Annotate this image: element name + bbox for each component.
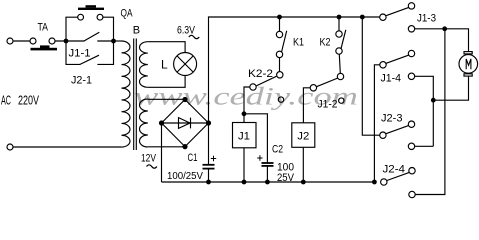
label C1 plus bbox=[211, 156, 216, 161]
contact J1-2 top circle bbox=[337, 73, 343, 79]
wire to transformer primary bbox=[114, 40, 122, 42]
svg-text:K2-2: K2-2 bbox=[248, 68, 273, 80]
contact J1-4 lower throw bbox=[408, 73, 414, 79]
contact J1-4 common bbox=[380, 62, 386, 68]
svg-text:220V: 220V bbox=[18, 93, 39, 108]
svg-text:TA: TA bbox=[38, 22, 49, 34]
contact J2-3 common bbox=[380, 132, 386, 138]
wire J1-4 throw to motor bottom node bbox=[415, 76, 434, 146]
node bridge left vertex bbox=[159, 120, 164, 125]
capacitor C1 stub bbox=[208, 123, 210, 165]
switch K2-2 blade bbox=[256, 76, 276, 86]
svg-text:100/25V: 100/25V bbox=[167, 171, 203, 182]
contact J2-1 branch wire bbox=[66, 41, 80, 64]
contact J1-1 blade bbox=[84, 32, 99, 41]
switch K2-2 floating contact bbox=[278, 97, 283, 102]
contact J2-1 blade bbox=[80, 55, 99, 64]
contact J2-4 common bbox=[381, 179, 387, 185]
svg-text:J2-1: J2-1 bbox=[71, 75, 92, 87]
capacitor C2 wire bbox=[244, 114, 267, 163]
contact J2-3 lower throw bbox=[408, 143, 414, 149]
capacitor C2 plates bbox=[262, 163, 274, 166]
wire bbox=[97, 41, 113, 64]
switch K2-2 right contact bbox=[277, 72, 283, 78]
node dot motor top bbox=[442, 26, 447, 31]
relay coil J2 bbox=[292, 123, 315, 148]
wire K2-2 to J1 node bbox=[244, 87, 250, 114]
bridge diode bbox=[162, 122, 209, 124]
contact J1-3 blade bbox=[386, 8, 408, 16]
push button QA terminal circles bbox=[78, 14, 84, 20]
label 12V tilde bbox=[147, 165, 157, 168]
wire J2-4 throw up to motor top node bbox=[415, 29, 445, 195]
wire AC bottom to primary bbox=[13, 146, 122, 148]
lamp L bbox=[174, 53, 197, 76]
wire J1-3 to motor top bbox=[415, 29, 469, 52]
node dot rail end bbox=[372, 180, 377, 185]
contact J2-4 blade bbox=[387, 172, 409, 180]
capacitor C1 lower stub bbox=[208, 169, 210, 182]
transformer B primary winding bbox=[122, 41, 131, 147]
contact J1-4 blade bbox=[386, 55, 408, 63]
node dot left bbox=[64, 39, 69, 44]
svg-text:J2-4: J2-4 bbox=[383, 163, 406, 175]
node dot top rail K1 bbox=[277, 15, 282, 20]
node dot rail C2 bbox=[265, 180, 270, 185]
wire K2 to J1-2 bbox=[339, 54, 340, 73]
wire bbox=[97, 40, 113, 42]
node dot motor bottom bbox=[431, 98, 436, 103]
lamp L bottom wire bbox=[148, 76, 185, 88]
bottom rail bbox=[162, 181, 375, 183]
contact J1-4 upper throw bbox=[408, 50, 414, 56]
wire J1-2 to relay J2 bbox=[303, 88, 310, 123]
node dot rail J2 bbox=[301, 180, 306, 185]
svg-text:J1-4: J1-4 bbox=[381, 73, 402, 85]
svg-text:6.3V: 6.3V bbox=[177, 25, 196, 37]
motor M body bbox=[464, 52, 472, 54]
svg-text:J1-2: J1-2 bbox=[318, 98, 338, 110]
svg-text:C1: C1 bbox=[188, 152, 198, 164]
transformer secondary 12V winding bbox=[140, 99, 148, 147]
label C2 plus bbox=[257, 155, 262, 160]
wire bbox=[55, 40, 85, 42]
svg-text:B: B bbox=[133, 25, 140, 37]
wire bbox=[13, 40, 30, 42]
switch K1 wire from rail bbox=[279, 17, 281, 31]
TA heater bar bbox=[31, 45, 58, 50]
svg-text:12V: 12V bbox=[141, 153, 157, 165]
wire J2-3 throw bbox=[415, 145, 434, 147]
switch K2 bbox=[336, 31, 342, 37]
node dot right bbox=[111, 39, 116, 44]
svg-text:QA: QA bbox=[121, 8, 133, 20]
contact J1-2 floating contact bbox=[339, 98, 344, 103]
capacitor C2 lower stub bbox=[266, 166, 268, 182]
wire bridge right vertex up and top rail bbox=[209, 17, 380, 123]
thermal contact TA terminal right bbox=[49, 38, 55, 44]
svg-text:J1: J1 bbox=[238, 131, 250, 143]
contact J1-2 blade bbox=[317, 78, 338, 87]
AC input terminal bottom bbox=[7, 144, 13, 150]
thermal contact TA terminal left bbox=[30, 38, 36, 44]
relay coil J1 bbox=[243, 114, 245, 123]
transformer core bbox=[133, 39, 135, 151]
switch K1 bbox=[276, 31, 282, 37]
contact J2-4 upper throw bbox=[409, 168, 415, 174]
transformer secondary 6.3V winding bbox=[140, 42, 148, 88]
svg-text:J2: J2 bbox=[297, 131, 309, 143]
wire top rail to J2-3 common bbox=[362, 17, 380, 135]
contact J1-3 upper throw bbox=[408, 3, 414, 9]
contact J1-2 left contact bbox=[310, 85, 316, 91]
contact J2-3 upper throw bbox=[408, 121, 414, 127]
node dot J1 top bbox=[242, 111, 247, 116]
wire motor bottom bbox=[433, 76, 468, 100]
switch K2-2 left contact bbox=[250, 84, 256, 90]
push button QA wiring bbox=[66, 17, 78, 41]
wire K1 to K2-2 bbox=[279, 58, 281, 72]
bridge rectifier diamond bbox=[162, 100, 209, 147]
label M bbox=[466, 59, 471, 69]
switch K2 wire from rail bbox=[338, 17, 340, 31]
wire J1-4 common to bottom rail bbox=[374, 65, 380, 182]
node bridge bottom vertex bbox=[182, 144, 187, 149]
wire 12V winding to bridge top vertex bbox=[148, 98, 185, 100]
svg-text:C2: C2 bbox=[272, 144, 283, 156]
contact J1-3 common bbox=[380, 14, 386, 20]
svg-text:AC: AC bbox=[1, 93, 11, 108]
svg-text:J2-3: J2-3 bbox=[381, 112, 403, 124]
node bridge right vertex bbox=[206, 120, 211, 125]
lamp L top wire bbox=[148, 42, 185, 53]
label 6.3V tilde bbox=[189, 35, 199, 38]
node dot top rail right bbox=[360, 15, 365, 20]
wire bridge left vertex down to bottom rail bbox=[161, 123, 163, 182]
contact J2-3 blade bbox=[386, 126, 408, 134]
node dot rail J1 bbox=[242, 180, 247, 185]
svg-text:K1: K1 bbox=[293, 37, 304, 49]
contact J1-3 lower throw bbox=[408, 26, 414, 32]
svg-text:K2: K2 bbox=[320, 37, 331, 49]
capacitor C1 plates bbox=[203, 165, 215, 169]
svg-text:25V: 25V bbox=[277, 172, 295, 184]
svg-text:L: L bbox=[161, 58, 168, 72]
wire 12V winding to bridge bottom vertex bbox=[148, 146, 185, 148]
node bridge top vertex bbox=[182, 97, 187, 102]
push button QA cap bbox=[78, 5, 104, 10]
svg-text:J1-3: J1-3 bbox=[417, 12, 436, 24]
node dot rail C1 bbox=[206, 180, 211, 185]
svg-text:J1-1: J1-1 bbox=[69, 48, 91, 60]
contact J2-4 lower throw bbox=[409, 191, 415, 197]
AC input terminal top bbox=[7, 38, 13, 44]
node dot top rail K2 bbox=[337, 15, 342, 20]
